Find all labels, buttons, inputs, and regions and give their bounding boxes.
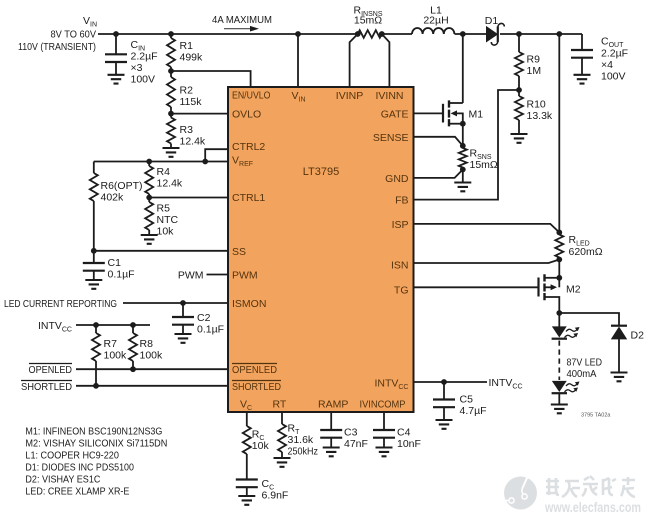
svg-text:LED: CREE XLAMP XR-E: LED: CREE XLAMP XR-E — [25, 486, 129, 498]
resistor R6 optional — [90, 162, 143, 251]
svg-text:100k: 100k — [104, 350, 128, 362]
node junction C5 — [441, 379, 447, 385]
svg-text:31.6k: 31.6k — [288, 434, 314, 446]
svg-text:ISMON: ISMON — [232, 298, 266, 310]
svg-text:0.1µF: 0.1µF — [197, 324, 224, 336]
svg-text:499k: 499k — [180, 52, 204, 64]
pin label IVINN — [375, 90, 403, 102]
node junction SS/C1 — [91, 248, 97, 254]
node junction R7/SHORTLED — [93, 383, 99, 389]
transistor M2 PMOS — [539, 274, 581, 313]
svg-text:GATE: GATE — [381, 108, 409, 120]
node junction R7 top — [93, 322, 99, 328]
wire SS pin — [94, 250, 228, 252]
node junction RINSNS left — [355, 31, 361, 37]
wire CTRL1 pin — [149, 197, 228, 199]
svg-text:15mΩ: 15mΩ — [354, 15, 382, 27]
svg-text:CTRL1: CTRL1 — [232, 192, 265, 204]
resistor R7 — [92, 325, 127, 386]
svg-text:250kHz: 250kHz — [288, 446, 319, 458]
svg-text:6.9nF: 6.9nF — [262, 490, 289, 502]
svg-text:0.1µF: 0.1µF — [108, 269, 135, 281]
svg-text:115k: 115k — [180, 96, 203, 108]
svg-text:×4: ×4 — [601, 59, 613, 71]
svg-text:C2: C2 — [197, 312, 211, 324]
svg-text:IVINN: IVINN — [375, 90, 403, 102]
pin label CTRL1 — [232, 192, 265, 204]
wire VIN supply rail — [98, 33, 358, 35]
ground below C3 — [323, 448, 340, 457]
wire rail RINSNS to L1 — [382, 33, 413, 35]
svg-text:FB: FB — [395, 195, 408, 207]
svg-text:13.3k: 13.3k — [527, 110, 553, 122]
label OPENLED external — [29, 364, 73, 377]
node junction R2/R3 OVLO — [168, 111, 174, 117]
svg-text:12.4k: 12.4k — [180, 136, 206, 148]
label SHORTLED external — [21, 381, 72, 394]
svg-text:2.2µF: 2.2µF — [601, 48, 628, 60]
wire IVINN pin — [382, 34, 390, 87]
resistor R4 — [145, 162, 183, 198]
pin label GND — [385, 173, 409, 185]
svg-text:R2: R2 — [180, 85, 194, 97]
svg-text:L1: COOPER HC9-220: L1: COOPER HC9-220 — [25, 449, 119, 461]
pin label ISP — [392, 219, 409, 231]
node junction RINSNS right — [379, 31, 385, 37]
wire output rail to RLED — [558, 34, 560, 232]
ground below RT — [274, 458, 291, 467]
svg-text:4.7µF: 4.7µF — [460, 405, 487, 417]
pin label OPENLED (internal) — [232, 364, 277, 377]
resistor R2 — [167, 71, 202, 114]
capacitor COUT — [571, 34, 628, 83]
ground below C1 — [85, 280, 102, 289]
node junction output rail — [556, 31, 562, 37]
svg-text:IVINP: IVINP — [336, 90, 363, 102]
resistor R5 NTC — [145, 198, 178, 238]
svg-text:110V (TRANSIENT): 110V (TRANSIENT) — [18, 41, 96, 53]
pin label TG — [394, 285, 409, 297]
svg-text:10k: 10k — [252, 440, 270, 452]
watermark elecfans logo — [502, 475, 537, 510]
pin label SS — [232, 246, 246, 258]
wire FB pin — [414, 90, 520, 200]
svg-text:C3: C3 — [344, 427, 358, 439]
pin label VIN (top) — [292, 90, 306, 103]
svg-text:400mA: 400mA — [567, 368, 597, 380]
resistor R3 — [167, 114, 206, 148]
svg-text:OPENLED: OPENLED — [232, 364, 277, 376]
pin label ISMON — [232, 298, 266, 310]
wire VIN pin drop — [297, 34, 299, 87]
svg-text:R1: R1 — [180, 40, 194, 52]
pin label PWM (internal) — [232, 270, 258, 282]
transistor M1 NMOS — [414, 100, 484, 126]
svg-text:PWM: PWM — [178, 270, 204, 282]
pin label OVLO — [232, 109, 261, 121]
pin label IVINP — [336, 90, 363, 102]
svg-text:IVINCOMP: IVINCOMP — [360, 399, 406, 411]
pin label RAMP — [318, 399, 348, 411]
node junction LED top — [556, 310, 562, 316]
resistor RLED 620mOhm — [555, 232, 602, 259]
wire CTRL2 pin jog — [205, 149, 228, 161]
svg-text:2.2µF: 2.2µF — [131, 51, 158, 63]
svg-text:M1: INFINEON BSC190N12NS3G: M1: INFINEON BSC190N12NS3G — [25, 425, 162, 437]
wire INTVCC pin right — [414, 381, 488, 383]
node junction D1 output — [516, 31, 522, 37]
wire OVLO pin — [171, 113, 228, 115]
svg-text:OVLO: OVLO — [232, 109, 261, 121]
svg-text:R8: R8 — [140, 338, 154, 350]
svg-text:RT: RT — [273, 399, 287, 411]
node junction R1/R2 EN/UVLO — [168, 68, 174, 74]
svg-text:SHORTLED: SHORTLED — [232, 381, 281, 393]
svg-text:M2: M2 — [566, 284, 581, 296]
wire ISN pin — [414, 260, 560, 264]
ground below R3 — [163, 148, 180, 157]
node junction R4 top — [146, 159, 152, 165]
wire SENSE pin — [414, 137, 463, 146]
svg-text:87V LED: 87V LED — [567, 357, 603, 369]
svg-text:4A MAXIMUM: 4A MAXIMUM — [212, 14, 272, 26]
resistor RINSNS 15mOhm — [354, 5, 383, 38]
wire rail L1 to D1 — [455, 33, 488, 35]
ground below RSNS — [454, 183, 471, 192]
capacitor C5 — [433, 382, 487, 420]
svg-text:1M: 1M — [527, 65, 542, 77]
node junction ISMON/C2 — [180, 300, 186, 306]
svg-text:D2: D2 — [631, 330, 645, 342]
ground below R5 — [141, 235, 158, 244]
resistor RSNS 15mOhm — [459, 146, 498, 171]
node junction RSNS top — [460, 143, 466, 149]
svg-text:RAMP: RAMP — [318, 399, 348, 411]
svg-text:EN/UVLO: EN/UVLO — [232, 90, 271, 102]
node switch junction — [460, 31, 466, 37]
wire rail D1 to COUT — [500, 33, 582, 35]
resistor RC — [243, 412, 270, 480]
node junction CIN — [113, 31, 119, 37]
pin label CTRL2 — [232, 141, 265, 153]
pin label EN/UVLO — [232, 90, 271, 102]
pin label IVINCOMP — [360, 399, 406, 411]
resistor R8 — [129, 325, 163, 369]
node junction R8/OPENLED — [130, 366, 136, 372]
node junction R9/R10 FB — [516, 87, 522, 93]
wire RSNS to ground — [462, 170, 464, 183]
node junction CTRL2/VREF — [202, 159, 208, 165]
node junction R4/R5 CTRL1 — [146, 195, 152, 201]
svg-text:15mΩ: 15mΩ — [470, 159, 498, 171]
svg-text:C4: C4 — [397, 427, 411, 439]
svg-text:×3: ×3 — [131, 62, 143, 74]
pin label RT — [273, 399, 287, 411]
svg-text:R7: R7 — [104, 338, 118, 350]
LED D-led1 — [552, 313, 580, 339]
capacitor CC — [236, 478, 289, 502]
svg-text:D2: VISHAY ES1C: D2: VISHAY ES1C — [25, 474, 100, 486]
capacitor C3 — [320, 412, 368, 450]
svg-text:ISP: ISP — [392, 219, 409, 231]
svg-text:R10: R10 — [527, 99, 546, 111]
node junction R8 top — [130, 322, 136, 328]
svg-text:R6(OPT): R6(OPT) — [101, 180, 143, 192]
label BOM component list — [25, 425, 167, 497]
ground below C5 — [436, 420, 453, 429]
wire switch node to M1 drain — [462, 34, 464, 103]
ground below C2 — [175, 334, 192, 343]
wire dashed LED string 87V LED 400mA — [559, 341, 602, 381]
wire ISP pin — [414, 224, 560, 233]
wire EN/UVLO pin — [171, 71, 251, 87]
pin label FB — [395, 195, 408, 207]
svg-text:620mΩ: 620mΩ — [569, 246, 603, 258]
svg-text:GND: GND — [385, 173, 409, 185]
pin label GATE — [381, 108, 409, 120]
node junction RLED top — [556, 230, 562, 236]
label 4A MAXIMUM with arrow — [212, 14, 272, 32]
node junction RLED bottom — [556, 257, 562, 263]
resistor R10 — [515, 90, 553, 134]
wire SHORTLED pin — [76, 385, 228, 387]
pin label SENSE — [373, 132, 409, 144]
svg-text:D1: DIODES INC PDS5100: D1: DIODES INC PDS5100 — [25, 461, 134, 473]
svg-text:402k: 402k — [101, 192, 125, 204]
svg-text:M2: VISHAY SILICONIX Si7115DN: M2: VISHAY SILICONIX Si7115DN — [25, 437, 167, 449]
svg-text:22µH: 22µH — [423, 15, 448, 27]
svg-text:OPENLED: OPENLED — [29, 364, 73, 376]
capacitor CIN — [105, 34, 158, 86]
resistor R1 — [167, 34, 203, 71]
svg-text:12.4k: 12.4k — [157, 178, 183, 190]
ground below D2 — [611, 373, 628, 382]
resistor RT timing — [278, 412, 318, 458]
svg-text:100k: 100k — [140, 350, 164, 362]
pin label VREF — [232, 155, 253, 168]
node junction VIN pin — [295, 31, 301, 37]
svg-text:C5: C5 — [460, 394, 474, 406]
wire TG pin — [414, 286, 539, 288]
svg-text:M1: M1 — [469, 108, 484, 120]
watermark chinese brand text — [546, 476, 635, 497]
pin label ISN — [391, 260, 409, 272]
node junction R1 top — [168, 31, 174, 37]
svg-text:C1: C1 — [108, 257, 122, 269]
svg-text:3795 TA02a: 3795 TA02a — [581, 413, 611, 419]
pin label SHORTLED (internal) — [232, 381, 281, 394]
svg-text:R4: R4 — [157, 166, 171, 178]
svg-text:10nF: 10nF — [397, 438, 421, 450]
svg-text:LED CURRENT REPORTING: LED CURRENT REPORTING — [4, 298, 117, 310]
pin label INTVCC (internal) — [374, 378, 408, 391]
inductor L1 22uH — [412, 5, 454, 35]
svg-text:47nF: 47nF — [344, 438, 368, 450]
op-amp U1 LT3795 IC body — [228, 87, 414, 412]
wire PWM pin — [207, 274, 229, 276]
svg-text:SS: SS — [232, 246, 246, 258]
wire M1 source to RSNS — [462, 124, 464, 146]
capacitor C4 — [373, 412, 421, 450]
svg-text:R3: R3 — [180, 124, 194, 136]
diode D2 — [611, 326, 644, 373]
svg-text:R9: R9 — [527, 54, 541, 66]
LED D-led2 — [552, 381, 580, 404]
ground below COUT — [574, 75, 591, 84]
wire junction to D2 — [559, 313, 619, 326]
svg-text:www.elecfans.com: www.elecfans.com — [544, 500, 641, 515]
diode D1 schottky — [485, 15, 505, 45]
svg-text:TG: TG — [394, 285, 409, 297]
node junction RSNS bottom — [460, 167, 466, 173]
wire INTVCC pullup rail — [76, 324, 150, 326]
svg-text:SHORTLED: SHORTLED — [21, 381, 72, 393]
svg-text:ISN: ISN — [391, 260, 409, 272]
wire GND pin — [414, 170, 463, 178]
svg-text:D1: D1 — [485, 15, 499, 27]
svg-text:LT3795: LT3795 — [303, 166, 340, 178]
ground below CIN — [108, 75, 125, 84]
svg-text:CTRL2: CTRL2 — [232, 141, 265, 153]
pin label VC — [240, 399, 252, 412]
wire OPENLED pin — [76, 368, 228, 370]
node VIN input label — [18, 15, 97, 53]
svg-text:8V TO 60V: 8V TO 60V — [51, 29, 97, 41]
svg-text:SENSE: SENSE — [373, 132, 409, 144]
wire ISMON pin — [123, 302, 228, 304]
capacitor C2 — [172, 303, 224, 336]
svg-text:R5: R5 — [157, 203, 171, 215]
ground below LED string — [551, 405, 568, 414]
svg-text:100V: 100V — [131, 74, 156, 86]
wire IVINP pin — [350, 34, 358, 87]
wire VREF rail — [94, 161, 228, 163]
resistor R9 — [515, 34, 541, 90]
wire RLED to M2 — [558, 260, 560, 278]
svg-text:PWM: PWM — [232, 270, 258, 282]
svg-text:10k: 10k — [157, 226, 175, 238]
svg-text:100V: 100V — [601, 71, 626, 83]
ground below R10 — [511, 134, 528, 143]
ground below C4 — [376, 448, 393, 457]
svg-text:NTC: NTC — [157, 214, 179, 226]
capacitor C1 — [83, 251, 135, 281]
ground below CC — [238, 496, 255, 505]
